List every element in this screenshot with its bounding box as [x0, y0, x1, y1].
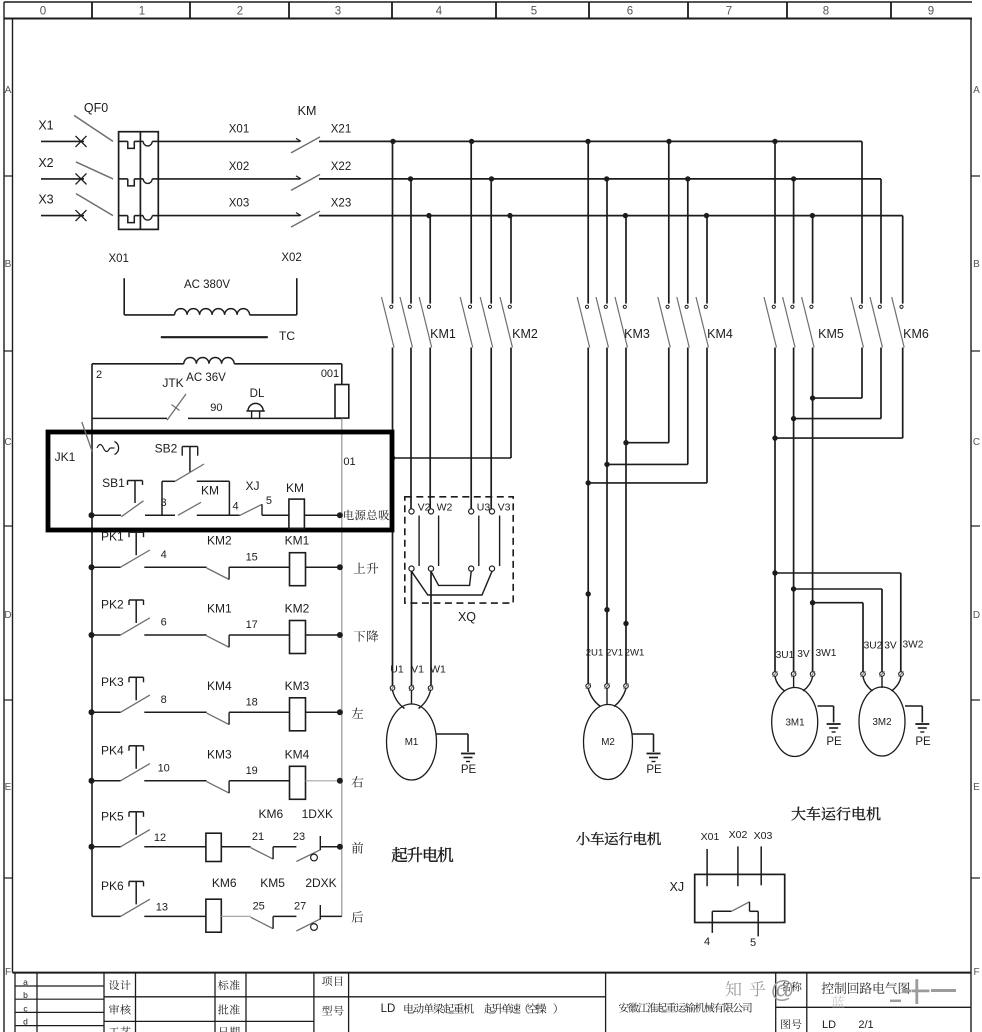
net label row1	[354, 563, 379, 574]
junction	[426, 213, 431, 218]
svg-text:X02: X02	[229, 161, 249, 173]
button PK5	[92, 809, 150, 847]
svg-text:KM4: KM4	[285, 747, 310, 761]
company name	[619, 1003, 752, 1013]
svg-text:X01: X01	[229, 123, 249, 135]
svg-text:PE: PE	[461, 764, 477, 776]
limit switch 1DXK	[296, 807, 333, 862]
junction	[390, 455, 395, 460]
wire V1 (XQ to M1)	[411, 571, 413, 685]
svg-text:12: 12	[154, 832, 166, 844]
svg-text:1DXK: 1DXK	[302, 807, 333, 821]
svg-text:4: 4	[161, 549, 167, 561]
watermark zhihu	[726, 977, 956, 1008]
svg-text:3W1: 3W1	[816, 648, 837, 659]
wire right control rail (01)	[341, 418, 343, 916]
wire 2V drop	[606, 348, 608, 684]
svg-text:TC: TC	[279, 329, 295, 343]
svg-text:XQ: XQ	[458, 610, 476, 624]
svg-text:E: E	[973, 782, 980, 793]
switch JK1	[55, 422, 119, 464]
highlight selection box	[48, 432, 392, 530]
svg-text:7: 7	[726, 6, 732, 18]
phase input X1	[38, 118, 86, 147]
pin 4	[704, 936, 710, 948]
junction	[89, 778, 95, 784]
wire swap KM4 ph3	[588, 348, 707, 483]
svg-text:X22: X22	[331, 161, 351, 173]
title model text	[381, 1003, 557, 1015]
drawing name	[822, 982, 910, 994]
svg-text:X23: X23	[331, 198, 351, 210]
svg-text:E: E	[5, 782, 12, 793]
junction	[337, 512, 343, 518]
wire 3	[145, 497, 175, 515]
wire 15	[229, 551, 290, 567]
junction	[604, 176, 609, 181]
transformer TC secondary	[92, 357, 342, 384]
wire 17	[229, 619, 290, 635]
junction	[772, 570, 777, 575]
svg-text:AC 36V: AC 36V	[186, 372, 226, 384]
svg-text:W1: W1	[430, 664, 446, 676]
svg-text:3U1: 3U1	[776, 650, 795, 661]
ground PE 3M1	[818, 706, 842, 748]
svg-text:2/1: 2/1	[858, 1019, 873, 1031]
junction	[586, 591, 591, 596]
ground PE M2	[633, 734, 662, 776]
title labels	[109, 976, 344, 1032]
svg-text:KM6: KM6	[258, 807, 283, 821]
svg-text:KM6: KM6	[212, 876, 237, 890]
svg-text:18: 18	[246, 697, 258, 709]
junction	[89, 844, 95, 850]
wire 4	[197, 501, 240, 516]
svg-text:10: 10	[158, 762, 170, 774]
svg-text:D: D	[973, 610, 980, 621]
wire to rail	[306, 566, 340, 568]
contact KM2 NC interlock	[207, 534, 232, 580]
wire X03	[158, 198, 300, 216]
motor 3M1	[772, 648, 837, 757]
limit switch 2DXK	[296, 876, 336, 931]
wire 2W drop	[625, 348, 627, 684]
contact KM4 NC interlock	[207, 679, 232, 725]
contact KM5 NC interlock	[251, 876, 286, 929]
svg-text:B: B	[973, 259, 980, 270]
svg-text:M1: M1	[405, 737, 419, 748]
svg-text:KM4: KM4	[207, 679, 232, 693]
junction	[791, 416, 796, 421]
svg-text:2: 2	[237, 6, 243, 18]
contact KM6 NC interlock	[251, 807, 284, 859]
contactor KM3 main contacts	[577, 141, 650, 347]
svg-text:5: 5	[266, 495, 272, 507]
junction	[337, 632, 343, 638]
wire swap KM6 ph1	[813, 348, 862, 399]
svg-text:X21: X21	[331, 123, 351, 135]
junction	[89, 709, 95, 715]
svg-text:A: A	[973, 85, 980, 96]
svg-text:2V1: 2V1	[606, 648, 623, 659]
junction	[685, 176, 690, 181]
wire 4	[144, 549, 206, 567]
svg-text:PE: PE	[646, 764, 662, 776]
wire U (KM1 ph1 to motor M1)	[392, 348, 394, 686]
svg-text:A: A	[5, 85, 12, 96]
svg-text:C: C	[973, 437, 980, 448]
svg-text:4: 4	[232, 501, 238, 513]
net label dianyuanzongxi	[344, 510, 389, 521]
svg-text:LD: LD	[822, 1019, 836, 1031]
svg-text:QF0: QF0	[84, 101, 108, 115]
wire to rail	[320, 915, 342, 917]
wire to rail	[306, 711, 340, 713]
svg-text:23: 23	[293, 831, 305, 843]
svg-text:01: 01	[343, 456, 355, 468]
wire 27	[273, 900, 306, 916]
wire 3V2 branch	[794, 589, 882, 671]
svg-text:@: @	[770, 977, 794, 1004]
svg-text:PE: PE	[826, 736, 842, 748]
svg-text:19: 19	[246, 765, 258, 777]
junction	[666, 139, 671, 144]
svg-text:KM1: KM1	[285, 534, 310, 548]
label hoist motor	[392, 847, 453, 862]
net label row4	[352, 776, 364, 787]
wire 5 to coil	[262, 514, 289, 516]
button PK3	[92, 675, 150, 713]
button SB2 (start, NO)	[155, 442, 230, 516]
svg-text:KM1: KM1	[430, 327, 456, 341]
svg-text:U1: U1	[390, 664, 404, 676]
svg-text:LD: LD	[381, 1003, 396, 1015]
svg-text:V2: V2	[418, 502, 431, 514]
wire 6	[144, 617, 206, 635]
disconnect switch QF0	[74, 101, 113, 216]
wire row to SB1	[92, 514, 121, 516]
phase input X2	[38, 156, 86, 185]
wire 19	[229, 765, 290, 781]
svg-text:X03: X03	[754, 830, 773, 842]
svg-text:V1: V1	[411, 664, 424, 676]
motor M2	[584, 648, 645, 780]
bus X22	[319, 161, 881, 179]
svg-text:27: 27	[294, 900, 306, 912]
wire swap KM4 ph1	[626, 348, 669, 443]
junction	[704, 213, 709, 218]
svg-text:M2: M2	[601, 737, 615, 748]
junction	[89, 512, 95, 518]
svg-text:0: 0	[40, 6, 46, 18]
wire 3U2 branch	[813, 603, 863, 672]
contact JTK	[92, 376, 186, 420]
svg-text:KM1: KM1	[207, 602, 232, 616]
net label row3	[352, 708, 364, 719]
svg-text:X01: X01	[108, 253, 128, 265]
svg-text:3: 3	[335, 6, 341, 18]
svg-text:KM2: KM2	[207, 534, 232, 548]
svg-text:X03: X03	[229, 198, 249, 210]
wire 2U drop	[587, 348, 589, 684]
svg-text:KM: KM	[298, 104, 317, 118]
svg-text:21: 21	[252, 831, 264, 843]
svg-text:D: D	[4, 610, 11, 621]
net label qian	[352, 842, 364, 853]
contactor KM5 main contacts	[764, 141, 844, 347]
svg-text:KM5: KM5	[818, 327, 844, 341]
svg-text:X02: X02	[281, 252, 301, 264]
svg-text:X1: X1	[38, 118, 53, 132]
svg-text:3V: 3V	[797, 649, 810, 660]
junction	[772, 435, 777, 440]
wire 90	[188, 402, 342, 418]
svg-text:PK5: PK5	[101, 809, 124, 823]
wire 3W2 branch	[775, 573, 901, 671]
contactor KM main contacts	[291, 104, 320, 227]
junction	[772, 139, 777, 144]
junction	[810, 395, 815, 400]
svg-text:XJ: XJ	[670, 880, 685, 894]
wire V2 drop	[410, 348, 412, 509]
connector XJ	[670, 829, 785, 923]
wire to rail	[306, 780, 340, 782]
svg-text:d: d	[23, 1017, 28, 1027]
wire W1 (XQ to M1)	[430, 571, 432, 685]
svg-text:PK4: PK4	[101, 743, 124, 757]
contact KM aux (seal-in)	[178, 484, 219, 516]
svg-text:F: F	[973, 967, 979, 978]
motor M1	[387, 664, 447, 781]
svg-text:4: 4	[436, 6, 443, 18]
bus X23	[319, 198, 903, 216]
wire to rail	[320, 846, 340, 848]
breaker box QF0	[119, 132, 159, 230]
junction	[337, 844, 343, 850]
junction	[89, 632, 95, 638]
junction	[623, 213, 628, 218]
svg-text:PK2: PK2	[101, 598, 124, 612]
net label row2	[354, 630, 379, 642]
svg-text:2DXK: 2DXK	[305, 876, 336, 890]
svg-text:3M1: 3M1	[785, 718, 804, 729]
wire X01	[158, 123, 300, 141]
svg-text:13: 13	[156, 901, 168, 913]
svg-text:W2: W2	[437, 502, 453, 514]
wire 25	[221, 900, 265, 916]
junction	[810, 600, 815, 605]
coil KM6	[206, 876, 237, 932]
wire 12	[144, 832, 206, 847]
svg-text:b: b	[23, 990, 28, 1000]
label bridge motor	[792, 807, 881, 821]
title block	[13, 973, 972, 1032]
coil KM4	[285, 747, 310, 799]
svg-text:2U1: 2U1	[586, 648, 604, 659]
svg-text:PK1: PK1	[101, 530, 124, 544]
junction	[469, 139, 474, 144]
transformer TC primary	[108, 252, 301, 315]
junction	[585, 139, 590, 144]
contactor KM1 main contacts	[382, 141, 456, 347]
junction	[489, 176, 494, 181]
svg-text:001: 001	[321, 368, 339, 380]
contact XJ internal 4-5	[712, 902, 758, 937]
wire 3U drop	[774, 348, 776, 672]
svg-text:SB2: SB2	[155, 442, 178, 456]
junction	[507, 213, 512, 218]
junction	[791, 586, 796, 591]
wire 10	[144, 762, 206, 780]
svg-text:2: 2	[96, 369, 102, 381]
wire X02	[158, 161, 300, 179]
svg-text:X3: X3	[38, 193, 53, 207]
wire to rail 01	[304, 514, 340, 516]
svg-text:KM5: KM5	[260, 876, 285, 890]
svg-text:PK6: PK6	[101, 879, 124, 893]
svg-text:3M2: 3M2	[872, 717, 891, 728]
wire V3 drop	[490, 348, 492, 509]
svg-text:5: 5	[531, 6, 537, 18]
svg-text:JK1: JK1	[55, 450, 76, 464]
coil KM	[286, 481, 304, 529]
svg-text:2W1: 2W1	[625, 648, 645, 659]
connector XQ	[405, 497, 513, 624]
junction	[623, 440, 628, 445]
junction	[337, 564, 343, 570]
contactor KM6 main contacts	[851, 141, 929, 347]
phase input X3	[38, 193, 86, 222]
svg-text:3U2: 3U2	[864, 641, 883, 652]
svg-text:KM3: KM3	[624, 327, 650, 341]
svg-text:XJ: XJ	[245, 479, 259, 493]
contactor KM2 main contacts	[460, 141, 538, 347]
svg-text:U3: U3	[477, 502, 491, 514]
svg-text:5: 5	[750, 937, 756, 949]
label trolley motor	[576, 832, 661, 845]
wire W2 drop	[429, 348, 431, 509]
svg-text:17: 17	[246, 619, 258, 631]
svg-text:F: F	[5, 967, 11, 978]
coil KM1	[285, 534, 310, 586]
contact KM1 NC interlock	[207, 602, 232, 648]
transformer TC core	[161, 329, 296, 343]
svg-text:15: 15	[246, 551, 258, 563]
svg-text:DL: DL	[250, 388, 265, 400]
bus X21	[319, 123, 862, 141]
svg-text:25: 25	[253, 900, 265, 912]
net label 01	[343, 456, 355, 468]
coil KM2	[285, 602, 310, 654]
svg-text:90: 90	[210, 402, 222, 414]
junction	[586, 480, 591, 485]
svg-text:9: 9	[928, 6, 934, 18]
button PK2	[92, 598, 150, 636]
wire swap KM2 ph3 to U	[393, 348, 512, 459]
svg-text:SB1: SB1	[102, 476, 125, 490]
svg-text:AC 380V: AC 380V	[184, 279, 230, 291]
wire 23	[273, 831, 305, 847]
svg-text:KM: KM	[201, 484, 219, 498]
wire 21	[221, 831, 264, 847]
svg-text:JTK: JTK	[162, 376, 183, 390]
wire left control rail (2)	[92, 364, 102, 917]
svg-text:6: 6	[161, 617, 167, 629]
contactor KM4 main contacts	[658, 141, 733, 347]
contact KM3 NC interlock	[207, 747, 232, 793]
svg-text:KM2: KM2	[285, 602, 310, 616]
coil KM3	[285, 679, 310, 731]
svg-text:B: B	[5, 259, 12, 270]
button PK1	[92, 530, 150, 568]
junction	[791, 176, 796, 181]
button SB1 (stop, NC)	[102, 476, 143, 517]
svg-text:KM: KM	[286, 481, 304, 495]
ground PE 3M2	[905, 706, 931, 748]
svg-text:8: 8	[823, 6, 829, 18]
junction	[623, 621, 628, 626]
svg-text:C: C	[4, 437, 11, 448]
motor 3M2	[859, 640, 924, 757]
svg-text:8: 8	[161, 694, 167, 706]
svg-text:V3: V3	[498, 502, 511, 514]
wire 3V drop	[793, 348, 795, 672]
junction	[337, 709, 343, 715]
svg-text:6: 6	[627, 6, 633, 18]
svg-text:KM2: KM2	[512, 327, 538, 341]
svg-text:a: a	[23, 977, 28, 987]
svg-text:3V: 3V	[884, 641, 897, 652]
wire 13	[144, 901, 206, 916]
svg-text:4: 4	[704, 936, 710, 948]
wire U3 drop	[470, 348, 472, 509]
svg-text:KM3: KM3	[285, 679, 310, 693]
junction	[604, 607, 609, 612]
svg-text:PK3: PK3	[101, 675, 124, 689]
button PK6	[92, 879, 150, 917]
svg-text:PE: PE	[915, 736, 931, 748]
pin 5	[750, 937, 756, 949]
svg-text:X01: X01	[701, 831, 720, 843]
wire swap KM4 ph2	[607, 348, 688, 465]
wire to rail	[306, 634, 340, 636]
lamp DL	[246, 388, 265, 418]
junction	[408, 176, 413, 181]
svg-text:X2: X2	[38, 156, 53, 170]
wire 3W drop	[812, 348, 814, 672]
svg-text:3W2: 3W2	[903, 640, 924, 651]
coil KM5	[206, 833, 221, 861]
wire 8	[144, 694, 206, 712]
contact XJ (pins 4-5)	[240, 479, 272, 516]
wire swap KM6 ph2	[794, 348, 881, 419]
wire 18	[229, 697, 290, 713]
ground PE M1	[437, 734, 477, 776]
wire swap KM6 ph3	[775, 348, 903, 439]
svg-text:KM3: KM3	[207, 747, 232, 761]
svg-text:KM4: KM4	[707, 327, 733, 341]
svg-text:1: 1	[139, 6, 145, 18]
name/number labels	[781, 982, 874, 1031]
net label hou	[352, 911, 364, 922]
svg-text:KM6: KM6	[903, 327, 929, 341]
junction	[390, 139, 395, 144]
junction	[604, 462, 609, 467]
fuse 001	[321, 364, 349, 418]
button PK4	[92, 743, 150, 781]
svg-text:X02: X02	[729, 829, 748, 841]
junction	[810, 213, 815, 218]
